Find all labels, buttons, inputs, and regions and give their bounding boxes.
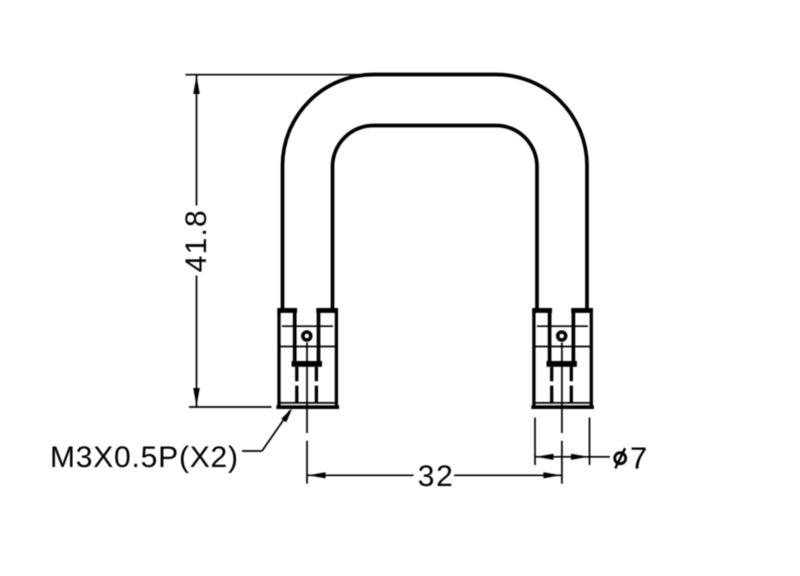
dim 32 dimension line	[307, 474, 562, 476]
left foot bottom thin line	[281, 402, 335, 404]
right foot bottom thin line	[535, 402, 589, 404]
right foot centerline	[561, 343, 563, 484]
leader tail line	[242, 450, 262, 452]
right foot set screw circle	[558, 332, 566, 340]
right foot tube end crossbar	[547, 361, 577, 367]
dim dia7 extension lines	[535, 418, 590, 466]
left foot outer side lines	[279, 308, 336, 407]
leader arrowhead	[281, 408, 292, 422]
svg-text:7: 7	[630, 441, 647, 476]
left foot ear top bars	[277, 308, 338, 313]
left foot slot edge lines	[295, 311, 319, 363]
dia symbol circle	[615, 453, 626, 464]
tube inner profile	[333, 126, 538, 311]
left foot mid thin line	[278, 346, 337, 348]
dim dia7 dimension line	[535, 456, 610, 458]
dim 41.8 arrowheads	[193, 76, 200, 406]
dim 32 arrowheads	[308, 472, 561, 478]
dim 41.8 bottom extension line	[189, 406, 272, 408]
left foot bottom bar	[276, 405, 339, 409]
right foot threaded hole hidden lines	[552, 367, 572, 403]
svg-text:32: 32	[418, 460, 453, 493]
leader diagonal line	[262, 411, 290, 452]
right foot slot edge lines	[550, 311, 574, 363]
svg-text:41.8: 41.8	[180, 210, 213, 272]
left foot centerline	[306, 343, 308, 484]
left foot tube end crossbar	[292, 361, 322, 367]
dim 41.8 top extension line	[186, 74, 375, 76]
right foot outer side lines	[534, 308, 591, 407]
left foot set screw circle	[303, 332, 311, 340]
right foot bottom bar	[531, 405, 594, 409]
left foot threaded hole hidden lines	[297, 367, 317, 403]
svg-text:M3X0.5P(X2): M3X0.5P(X2)	[50, 441, 238, 474]
right foot upper thin line	[537, 325, 588, 327]
right foot mid thin line	[533, 346, 592, 348]
right foot ear top bars	[532, 308, 593, 313]
dia symbol slash	[615, 448, 625, 468]
dim 41.8 dimension line	[196, 75, 198, 407]
left foot upper thin line	[282, 325, 333, 327]
dim dia7 arrowheads	[536, 454, 589, 460]
tube outer profile	[283, 75, 588, 311]
